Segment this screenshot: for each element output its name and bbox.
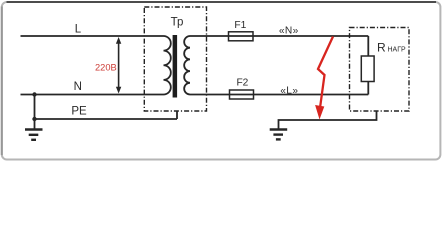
transformer secondary winding bbox=[184, 36, 190, 94]
svg-text:НАГР: НАГР bbox=[388, 47, 407, 54]
svg-text:N: N bbox=[74, 81, 82, 93]
transformer Tr shield box bbox=[144, 7, 206, 111]
svg-text:R: R bbox=[377, 41, 386, 55]
svg-text:F1: F1 bbox=[234, 20, 246, 31]
transformer primary winding bbox=[164, 36, 171, 95]
border frame bbox=[2, 2, 441, 160]
fuse F2 bbox=[230, 90, 254, 99]
wire shield to PE stub bbox=[176, 111, 178, 119]
voltage dimension arrow 220V bbox=[116, 37, 121, 94]
svg-text:«L»: «L» bbox=[280, 86, 298, 97]
lightning bolt fault arrow bbox=[315, 37, 333, 120]
ground (right) bbox=[270, 130, 288, 140]
wire chassis to ground bbox=[279, 111, 377, 130]
junction node on PE wire bbox=[32, 117, 36, 121]
resistor R нагр bbox=[361, 56, 374, 82]
wire resistor top lead bbox=[367, 36, 369, 56]
fuse F1 bbox=[229, 32, 254, 41]
wire secondary bottom rail bbox=[190, 94, 368, 96]
wire PE bbox=[35, 118, 178, 120]
svg-text:Тр: Тр bbox=[171, 17, 184, 29]
wire N rail (primary bottom) bbox=[21, 94, 164, 96]
junction node on N rail bbox=[32, 92, 36, 96]
wire secondary top rail bbox=[190, 35, 368, 37]
svg-text:F2: F2 bbox=[236, 78, 248, 89]
svg-text:220В: 220В bbox=[95, 63, 117, 73]
transformer core bbox=[173, 35, 178, 98]
svg-text:«N»: «N» bbox=[279, 26, 299, 37]
wire resistor bottom lead bbox=[367, 82, 369, 95]
wire L rail (primary top) bbox=[21, 35, 164, 37]
svg-text:L: L bbox=[75, 23, 82, 35]
wire N to PE vertical bbox=[34, 95, 36, 120]
load shield box bbox=[350, 28, 410, 112]
ground PE (left) bbox=[25, 119, 43, 140]
svg-text:PE: PE bbox=[71, 106, 87, 118]
